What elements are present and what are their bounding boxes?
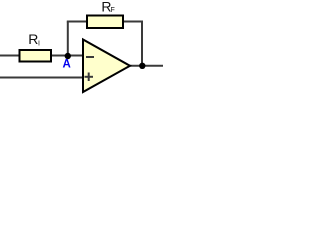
svg-text:A: A (63, 59, 71, 71)
junction output dot (139, 63, 145, 69)
op-amp U1 (83, 40, 130, 93)
wire: output (129, 65, 163, 67)
wire: feedback right vertical down to output (141, 21, 143, 67)
resistor R_I (20, 50, 52, 62)
wire: non-inverting input rail (0, 77, 83, 79)
resistor R_F (87, 16, 123, 29)
op-amp plus sign (85, 76, 94, 78)
wire: feedback top-right horizontal (122, 21, 143, 23)
junction node A dot (65, 53, 71, 59)
wire: R_I to op-amp inverting input (51, 55, 83, 57)
svg-text:F: F (111, 7, 115, 14)
wire: feedback top-left horizontal (67, 21, 87, 23)
wire: feedback left vertical from node A (67, 22, 69, 57)
svg-text:R: R (28, 31, 38, 47)
wire: input left segment (0, 55, 20, 57)
op-amp minus sign (86, 56, 94, 58)
svg-text:I: I (38, 41, 40, 48)
